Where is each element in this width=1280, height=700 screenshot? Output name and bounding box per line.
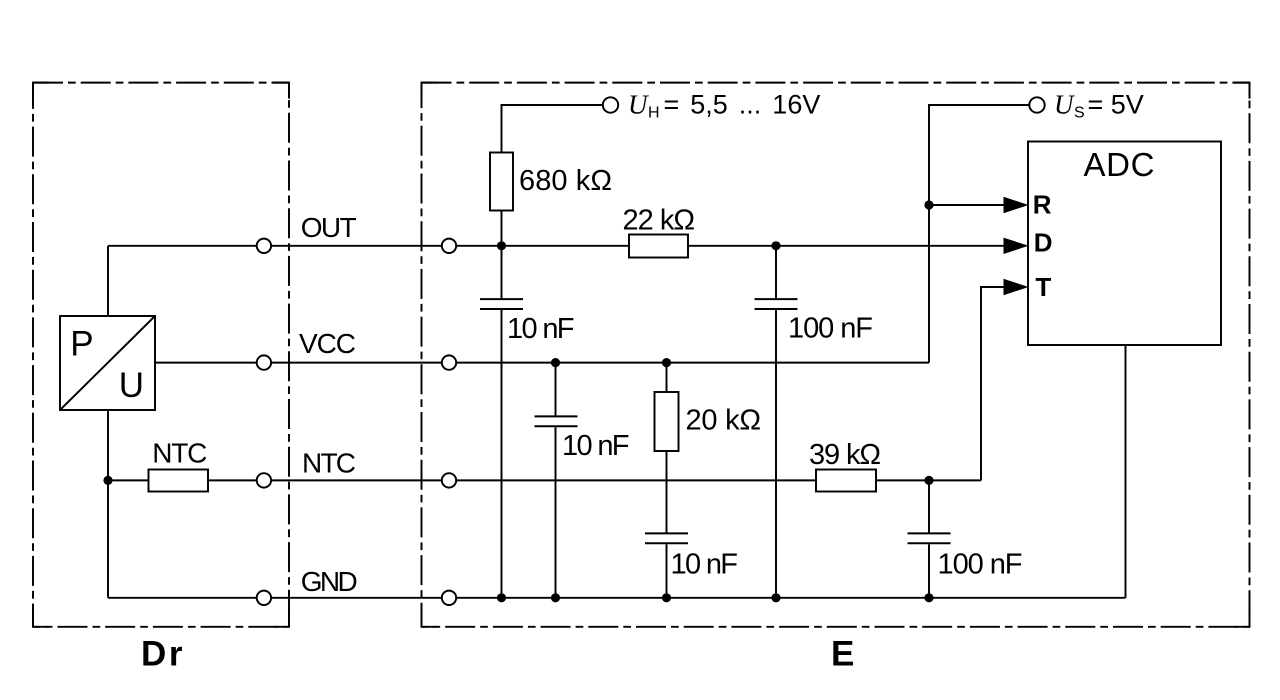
svg-text:39 kΩ: 39 kΩ bbox=[809, 439, 881, 471]
resistor 39 kOhm bbox=[816, 470, 876, 492]
arrowhead R pin bbox=[1004, 197, 1029, 213]
wire VCC row from sensor to vertical supply column bbox=[155, 362, 929, 364]
terminal E GND bbox=[442, 591, 456, 605]
svg-text:S: S bbox=[1074, 105, 1085, 122]
svg-text:VCC: VCC bbox=[299, 328, 356, 359]
junction OUT right node bbox=[771, 241, 780, 250]
svg-text:U: U bbox=[1054, 90, 1075, 120]
terminal E OUT bbox=[442, 239, 456, 253]
wire US terminal to supply column down to VCC row bbox=[929, 105, 1029, 363]
terminal Dr OUT bbox=[257, 239, 271, 253]
resistor 22 kOhm bbox=[629, 235, 688, 258]
svg-text:P: P bbox=[70, 325, 93, 364]
svg-text:10 nF: 10 nF bbox=[507, 313, 575, 345]
wire GND row bbox=[108, 597, 1126, 599]
wire from OUT row down into sensor top bbox=[107, 246, 109, 316]
arrowhead D pin bbox=[1004, 238, 1029, 254]
svg-text:680 kΩ: 680 kΩ bbox=[519, 165, 612, 197]
terminal E NTC bbox=[442, 473, 456, 487]
svg-text:Dr: Dr bbox=[141, 634, 183, 673]
junction VCC 10nF node bbox=[551, 358, 560, 367]
junction GND 3 bbox=[662, 593, 671, 602]
wire R tap to ADC bbox=[929, 204, 1004, 206]
svg-text:ADC: ADC bbox=[1084, 146, 1155, 183]
wire UH terminal to 680k resistor bbox=[502, 105, 602, 153]
sensor box P/U bbox=[60, 316, 155, 410]
svg-text:= 5V: = 5V bbox=[1088, 90, 1144, 120]
Dr sensor block dashed border bbox=[33, 83, 289, 627]
svg-text:GND: GND bbox=[301, 566, 358, 597]
capacitor 100 nF at NTC right node bbox=[908, 533, 951, 543]
junction GND 2 bbox=[551, 593, 560, 602]
terminal Dr VCC bbox=[257, 355, 271, 369]
svg-text:10 nF: 10 nF bbox=[562, 430, 630, 462]
svg-text:U: U bbox=[119, 366, 144, 405]
junction VCC 20k node bbox=[662, 358, 671, 367]
svg-text:H: H bbox=[648, 105, 660, 122]
junction sensor NTC tap bbox=[103, 476, 112, 485]
junction NTC right node bbox=[924, 476, 933, 485]
wire VCC node through 10nF cap to GND bbox=[555, 363, 557, 598]
capacitor 10 nF at OUT node bbox=[480, 299, 523, 309]
svg-text:20 kΩ: 20 kΩ bbox=[686, 405, 762, 437]
wire NTC row bbox=[108, 479, 981, 481]
terminal US supply bbox=[1029, 97, 1044, 112]
svg-text:R: R bbox=[1033, 190, 1052, 220]
svg-text:OUT: OUT bbox=[301, 212, 357, 243]
wire sensor bottom down to GND row bbox=[107, 410, 109, 598]
wire T signal riser bbox=[981, 287, 1004, 480]
terminal UH supply bbox=[603, 97, 618, 112]
terminal E VCC bbox=[442, 355, 456, 369]
wire VCC node to 20k resistor, 10nF cap, GND bbox=[666, 363, 668, 598]
svg-text:T: T bbox=[1035, 272, 1051, 302]
wire OUT row bbox=[108, 245, 1004, 247]
capacitor 10 nF below 20k bbox=[645, 533, 688, 543]
resistor NTC bbox=[149, 470, 209, 492]
resistor 680 kOhm bbox=[490, 153, 513, 211]
wire OUT right node through 100nF cap to GND bbox=[775, 246, 777, 598]
ADC box bbox=[1028, 142, 1221, 346]
capacitor 10 nF at VCC node bbox=[535, 416, 578, 426]
svg-text:NTC: NTC bbox=[152, 437, 207, 468]
E ECU block dashed border bbox=[422, 83, 1250, 627]
wire 680k to OUT node and capacitor, down to GND bbox=[501, 211, 503, 598]
svg-text:22 kΩ: 22 kΩ bbox=[623, 205, 696, 237]
wire NTC right node through 100nF cap to GND bbox=[928, 480, 930, 597]
svg-text:E: E bbox=[831, 634, 854, 673]
svg-text:10 nF: 10 nF bbox=[671, 549, 739, 581]
svg-text:D: D bbox=[1034, 228, 1053, 258]
resistor 20 kOhm bbox=[655, 392, 679, 451]
label UH supply bbox=[628, 90, 820, 122]
junction R tap bbox=[924, 200, 933, 209]
arrowhead T pin bbox=[1004, 279, 1029, 295]
terminal Dr GND bbox=[257, 591, 271, 605]
wire ADC ground leg bbox=[1125, 345, 1127, 598]
svg-text:= 5,5 ... 16V: = 5,5 ... 16V bbox=[664, 90, 821, 120]
junction GND 4 bbox=[771, 593, 780, 602]
svg-text:NTC: NTC bbox=[302, 448, 356, 479]
junction OUT node bbox=[497, 241, 506, 250]
capacitor 100 nF at OUT right node bbox=[755, 299, 798, 309]
label US supply bbox=[1054, 90, 1144, 122]
junction GND 1 bbox=[497, 593, 506, 602]
svg-text:100 nF: 100 nF bbox=[938, 549, 1023, 581]
svg-text:U: U bbox=[628, 90, 649, 120]
terminal Dr NTC bbox=[257, 473, 271, 487]
svg-text:100 nF: 100 nF bbox=[788, 313, 873, 345]
junction GND 5 bbox=[924, 593, 933, 602]
